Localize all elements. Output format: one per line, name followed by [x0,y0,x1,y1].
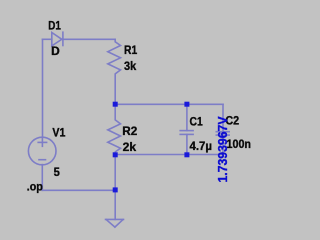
svg-text:R2: R2 [122,124,137,138]
V1 plus sign [37,141,47,143]
capacitor C2 [222,104,224,131]
V1 minus sign [38,159,46,161]
svg-text:3k: 3k [124,59,136,73]
svg-text:V1: V1 [52,125,65,139]
wire left vertical (diode anode down to V1 top) [42,39,44,137]
wire ground stem [114,190,116,219]
svg-text:D1: D1 [48,18,61,32]
wire bottom rail [42,189,115,191]
wire diode cathode to R1 top [63,38,115,40]
resistor R2 [108,104,121,154]
svg-text:R1: R1 [124,43,137,57]
voltage source V1 circle [28,137,56,165]
node C1 bottom [184,152,189,157]
wire diode anode [43,38,52,40]
svg-text:2k: 2k [123,140,137,154]
capacitor C1 [186,104,188,130]
node ground rail [113,187,118,192]
node R2 bottom [113,152,118,157]
node junction squares [113,102,190,193]
svg-text:C1: C1 [190,115,203,129]
svg-text:.op: .op [27,179,43,193]
svg-text:D: D [51,44,60,58]
diode D1 [52,33,62,46]
node C1 top [184,102,189,107]
svg-text:5: 5 [54,165,60,179]
svg-text:100n: 100n [227,137,252,151]
ground [106,218,124,220]
wire R2 bottom down to ground rail [114,155,116,191]
svg-text:1.7393967V: 1.7393967V [215,116,230,182]
wire mid horizontal node row [115,103,223,105]
resistor R1 [108,39,121,104]
svg-text:4.7µ: 4.7µ [190,139,213,153]
node R1/R2/mid-wire [113,102,118,107]
wire V1 bottom to ground rail [41,165,43,191]
wire bottom mid horizontal [115,154,223,156]
